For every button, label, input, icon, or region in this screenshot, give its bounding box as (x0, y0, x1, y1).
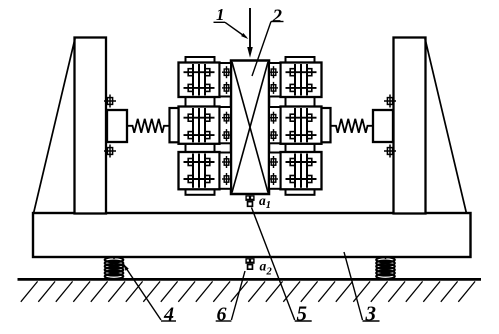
svg-text:5: 5 (297, 301, 308, 325)
svg-text:3: 3 (365, 301, 377, 325)
svg-text:6: 6 (217, 303, 227, 325)
svg-text:1: 1 (266, 200, 271, 211)
svg-text:a: a (260, 259, 267, 274)
svg-text:2: 2 (272, 6, 283, 27)
svg-text:1: 1 (216, 5, 225, 24)
svg-text:4: 4 (163, 303, 174, 325)
svg-text:2: 2 (266, 267, 273, 278)
